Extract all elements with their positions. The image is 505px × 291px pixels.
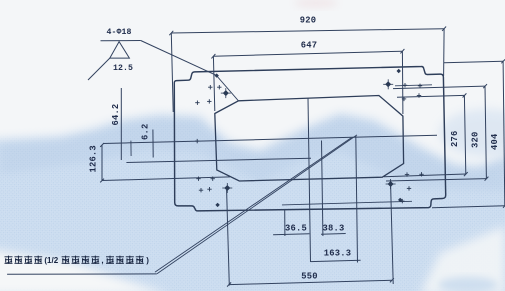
svg-text:404: 404 [490, 133, 500, 150]
svg-text:920: 920 [300, 15, 316, 25]
svg-text:6.2: 6.2 [140, 124, 150, 140]
svg-text:276: 276 [450, 131, 460, 147]
svg-text:12.5: 12.5 [113, 64, 133, 73]
svg-text:): ) [146, 256, 149, 265]
svg-text:4-Φ18: 4-Φ18 [106, 28, 131, 37]
svg-text:126.3: 126.3 [89, 145, 99, 172]
svg-text:,: , [101, 256, 103, 265]
svg-text:163.3: 163.3 [324, 248, 351, 258]
svg-text:36.5: 36.5 [285, 224, 307, 234]
svg-text:64.2: 64.2 [111, 104, 121, 126]
svg-text:647: 647 [301, 40, 317, 50]
svg-text:38.3: 38.3 [323, 224, 345, 234]
svg-text:550: 550 [301, 272, 317, 282]
svg-text:320: 320 [471, 132, 481, 148]
svg-text:(1/2: (1/2 [44, 256, 58, 265]
